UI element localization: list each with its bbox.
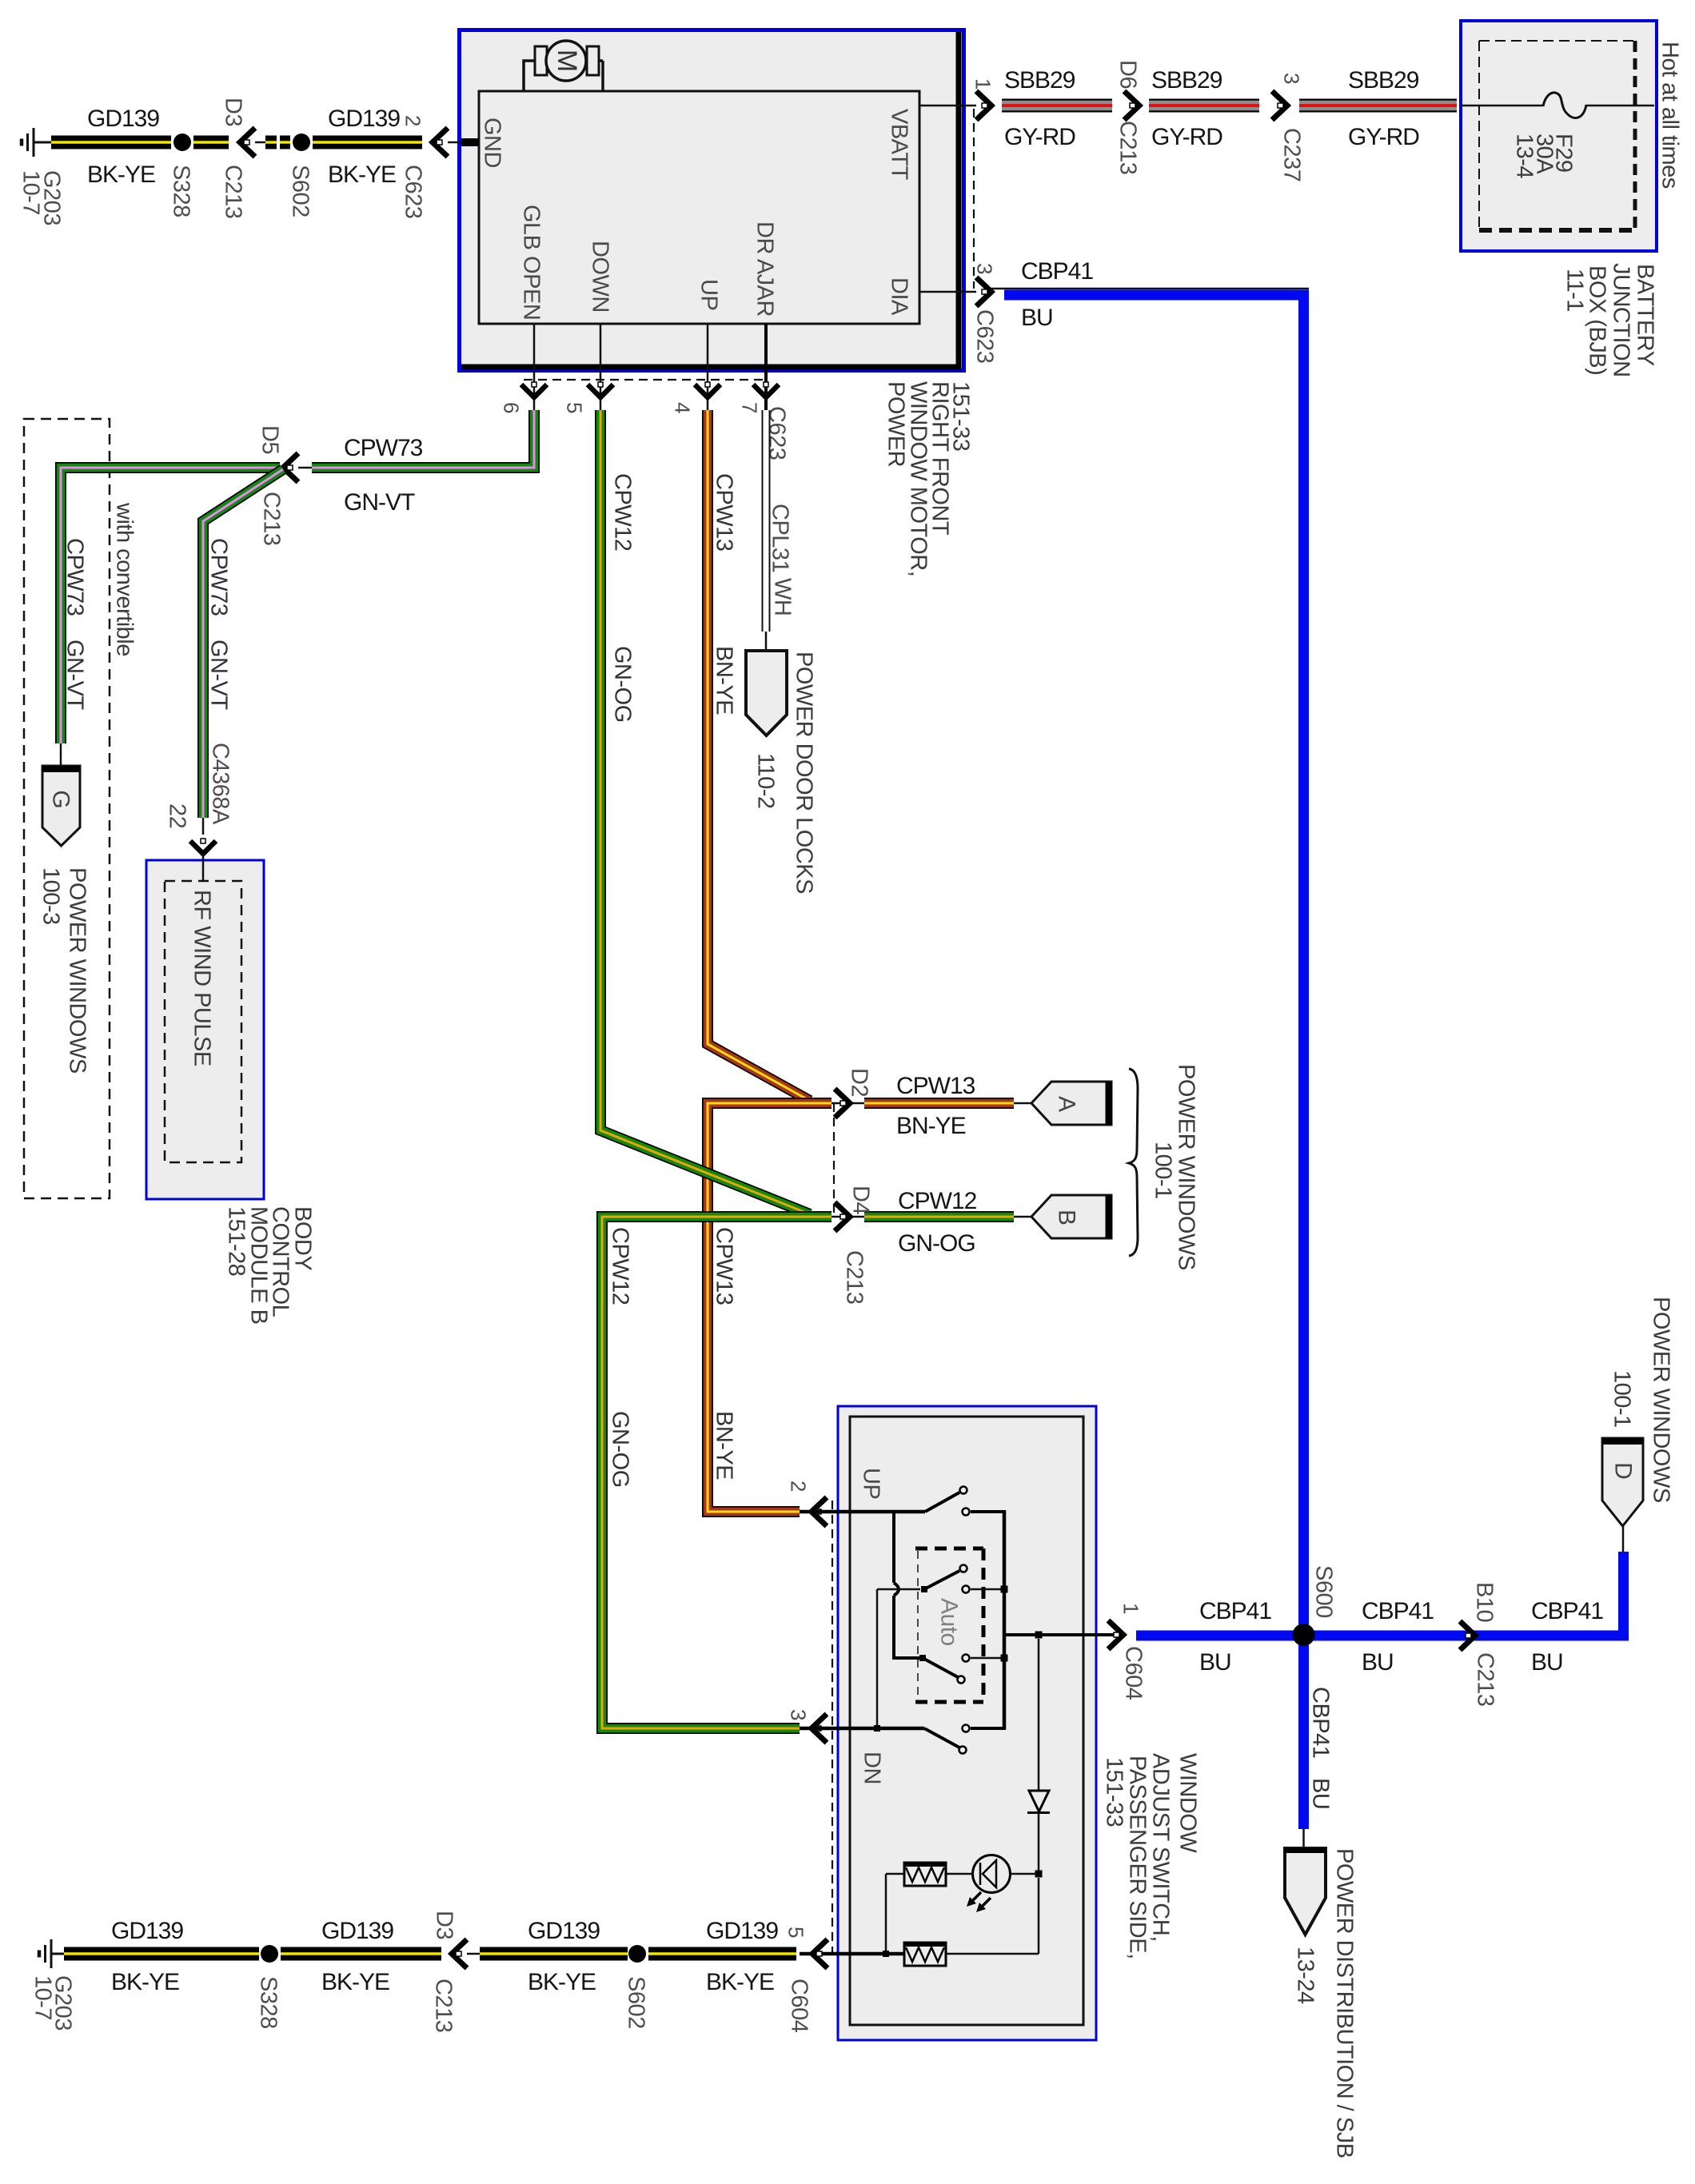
svg-text:3: 3 — [787, 1709, 811, 1720]
svg-text:CBP41: CBP41 — [1021, 258, 1093, 285]
svg-text:GY-RD: GY-RD — [1348, 124, 1419, 150]
svg-text:A: A — [1054, 1096, 1080, 1112]
svg-text:Hot at all times: Hot at all times — [1657, 42, 1683, 189]
svg-text:BK-YE: BK-YE — [111, 1969, 179, 1995]
svg-text:GD139: GD139 — [111, 1918, 183, 1944]
svg-text:ADJUST SWITCH,: ADJUST SWITCH, — [1148, 1753, 1174, 1942]
svg-text:SBB29: SBB29 — [1348, 67, 1419, 94]
svg-text:S600: S600 — [1311, 1565, 1337, 1618]
svg-text:3: 3 — [1280, 73, 1304, 84]
svg-text:POWER DOOR LOCKS: POWER DOOR LOCKS — [792, 652, 817, 894]
svg-text:CPW73: CPW73 — [344, 435, 423, 461]
svg-text:BN-YE: BN-YE — [896, 1113, 966, 1139]
svg-text:C213: C213 — [431, 1979, 457, 2032]
svg-text:GD139: GD139 — [328, 106, 400, 132]
svg-text:BN-YE: BN-YE — [712, 646, 737, 715]
svg-text:B: B — [1054, 1210, 1080, 1226]
svg-text:BN-YE: BN-YE — [712, 1411, 737, 1480]
svg-text:CPW12: CPW12 — [898, 1188, 977, 1214]
svg-text:4: 4 — [671, 402, 695, 413]
svg-text:CBP41: CBP41 — [1362, 1598, 1434, 1624]
svg-text:GD139: GD139 — [706, 1918, 778, 1944]
svg-text:DR AJAR: DR AJAR — [752, 221, 778, 317]
svg-text:100-1: 100-1 — [1609, 1370, 1635, 1428]
svg-text:S602: S602 — [288, 165, 313, 217]
svg-text:POWER: POWER — [883, 381, 909, 467]
svg-text:DIA: DIA — [887, 277, 912, 316]
svg-text:100-3: 100-3 — [38, 867, 64, 925]
svg-text:S328: S328 — [256, 1976, 281, 2029]
svg-text:C213: C213 — [259, 492, 285, 545]
svg-text:PASSENGER SIDE,: PASSENGER SIDE, — [1125, 1756, 1151, 1959]
svg-text:10-7: 10-7 — [30, 1975, 56, 2020]
svg-text:SBB29: SBB29 — [1004, 67, 1075, 94]
svg-text:DN: DN — [859, 1752, 885, 1784]
svg-text:B10: B10 — [1472, 1582, 1498, 1622]
svg-text:GD139: GD139 — [321, 1918, 393, 1944]
svg-text:151-33: 151-33 — [1102, 1757, 1127, 1827]
svg-text:C623: C623 — [764, 406, 790, 460]
svg-text:1: 1 — [971, 78, 995, 90]
svg-text:BU: BU — [1531, 1649, 1563, 1676]
svg-text:D3: D3 — [221, 98, 246, 126]
svg-text:GLB OPEN: GLB OPEN — [519, 205, 544, 320]
svg-text:GN-OG: GN-OG — [898, 1230, 975, 1257]
svg-text:Auto: Auto — [936, 1598, 963, 1646]
svg-text:C213: C213 — [1473, 1652, 1498, 1706]
svg-text:C213: C213 — [842, 1250, 867, 1304]
svg-text:CPW73: CPW73 — [62, 538, 88, 616]
svg-text:GY-RD: GY-RD — [1151, 124, 1222, 150]
svg-text:POWER WINDOWS: POWER WINDOWS — [1649, 1297, 1674, 1503]
svg-text:UP: UP — [859, 1468, 884, 1499]
svg-text:1: 1 — [1119, 1603, 1143, 1614]
svg-text:BU: BU — [1199, 1649, 1231, 1676]
svg-text:GND: GND — [480, 118, 505, 168]
svg-text:110-2: 110-2 — [753, 753, 779, 809]
svg-text:D3: D3 — [432, 1911, 457, 1939]
svg-text:D2: D2 — [847, 1068, 872, 1097]
svg-text:POWER WINDOWS: POWER WINDOWS — [65, 867, 90, 1074]
svg-text:22: 22 — [165, 803, 190, 828]
svg-text:CPL31: CPL31 — [768, 504, 793, 572]
svg-text:151-33: 151-33 — [948, 381, 974, 451]
svg-text:GN-VT: GN-VT — [206, 640, 232, 711]
svg-text:CPW13: CPW13 — [712, 1227, 737, 1305]
svg-text:GN-OG: GN-OG — [608, 1411, 633, 1488]
svg-text:151-28: 151-28 — [224, 1206, 249, 1276]
svg-text:5: 5 — [563, 402, 587, 413]
svg-text:POWER DISTRIBUTION / SJB: POWER DISTRIBUTION / SJB — [1332, 1848, 1358, 2158]
svg-text:WH: WH — [770, 578, 796, 616]
svg-text:BU: BU — [1021, 305, 1053, 331]
svg-text:CBP41: CBP41 — [1531, 1598, 1603, 1624]
svg-text:C4368A: C4368A — [208, 743, 233, 825]
svg-text:GD139: GD139 — [528, 1918, 600, 1944]
svg-text:CPW13: CPW13 — [896, 1073, 975, 1099]
svg-text:GN-VT: GN-VT — [62, 640, 88, 711]
svg-text:D6: D6 — [1115, 60, 1141, 89]
svg-text:WINDOW: WINDOW — [1175, 1753, 1201, 1853]
svg-text:C213: C213 — [1115, 121, 1141, 174]
svg-text:BU: BU — [1362, 1649, 1394, 1676]
svg-text:D: D — [1610, 1462, 1637, 1480]
svg-text:13-24: 13-24 — [1293, 1947, 1318, 2004]
svg-text:13-4: 13-4 — [1512, 134, 1537, 178]
svg-text:6: 6 — [500, 402, 524, 413]
svg-text:GN-OG: GN-OG — [610, 646, 636, 723]
svg-text:2: 2 — [401, 115, 425, 126]
svg-text:5: 5 — [784, 1927, 808, 1938]
svg-text:SBB29: SBB29 — [1151, 67, 1222, 94]
svg-text:C604: C604 — [1121, 1646, 1147, 1700]
svg-text:CPW13: CPW13 — [712, 473, 737, 551]
svg-text:CBP41: CBP41 — [1308, 1687, 1334, 1758]
svg-text:2: 2 — [787, 1481, 811, 1492]
svg-text:VBATT: VBATT — [887, 109, 912, 181]
svg-text:3: 3 — [973, 263, 997, 274]
svg-text:CPW73: CPW73 — [206, 538, 232, 616]
svg-text:BK-YE: BK-YE — [706, 1969, 774, 1995]
svg-text:DOWN: DOWN — [588, 241, 613, 313]
svg-text:C237: C237 — [1279, 128, 1305, 181]
svg-text:GD139: GD139 — [87, 106, 159, 132]
svg-text:S328: S328 — [169, 165, 194, 217]
svg-text:D5: D5 — [257, 425, 283, 454]
svg-text:GY-RD: GY-RD — [1004, 124, 1075, 150]
svg-text:CPW12: CPW12 — [608, 1227, 633, 1305]
svg-text:C213: C213 — [221, 165, 246, 218]
svg-text:C604: C604 — [787, 1979, 812, 2033]
svg-text:C623: C623 — [972, 309, 998, 363]
svg-text:C623: C623 — [401, 165, 426, 218]
svg-text:RF WIND PULSE: RF WIND PULSE — [189, 890, 215, 1066]
svg-text:M: M — [552, 50, 582, 72]
svg-text:GN-VT: GN-VT — [344, 489, 415, 516]
svg-text:100-1: 100-1 — [1151, 1142, 1176, 1199]
svg-text:D4: D4 — [848, 1186, 874, 1214]
svg-text:BATTERY: BATTERY — [1633, 264, 1658, 366]
svg-text:POWER WINDOWS: POWER WINDOWS — [1174, 1064, 1199, 1270]
svg-text:BK-YE: BK-YE — [528, 1969, 596, 1995]
svg-text:BK-YE: BK-YE — [87, 161, 155, 188]
svg-text:BK-YE: BK-YE — [321, 1969, 389, 1995]
svg-text:BU: BU — [1308, 1778, 1334, 1809]
svg-text:BK-YE: BK-YE — [328, 161, 396, 188]
svg-text:10-7: 10-7 — [18, 170, 44, 215]
svg-text:11-1: 11-1 — [1562, 269, 1588, 312]
svg-text:S602: S602 — [624, 1976, 649, 2029]
svg-text:CPW12: CPW12 — [610, 473, 636, 551]
svg-text:7: 7 — [738, 402, 762, 413]
svg-text:with convertible: with convertible — [112, 502, 138, 656]
svg-text:CBP41: CBP41 — [1199, 1598, 1271, 1624]
svg-text:JUNCTION: JUNCTION — [1609, 263, 1634, 377]
svg-text:G: G — [48, 790, 74, 808]
svg-text:UP: UP — [696, 279, 722, 310]
